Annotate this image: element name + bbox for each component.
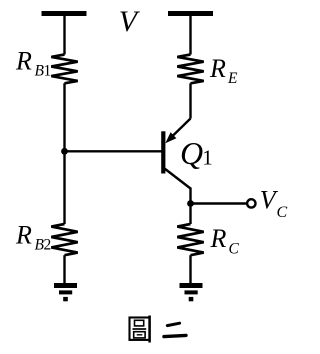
caption character 圖 (Figure) — [130, 316, 150, 343]
svg-text:C: C — [277, 204, 288, 221]
resistor RC — [177, 224, 203, 255]
power rail bar (left, V supply) — [42, 11, 87, 16]
wire: RB1 down through base node to RB2 — [63, 83, 65, 224]
transistor Q1 base bar — [161, 131, 165, 173]
svg-text:C: C — [229, 241, 240, 258]
wire: right rail down to RE — [189, 16, 191, 55]
resistor RE — [177, 55, 203, 84]
svg-text:Q: Q — [180, 135, 203, 171]
wire: node to output terminal — [191, 202, 247, 204]
svg-text:R: R — [15, 47, 32, 76]
node: collector output junction dot — [187, 200, 194, 207]
terminal VC (open circle) — [247, 199, 255, 207]
wire: left rail down to RB1 — [63, 16, 65, 55]
wire: RC down to ground — [189, 255, 191, 284]
svg-text:E: E — [227, 70, 238, 87]
transistor Q1 collector (diagonal) — [165, 169, 191, 189]
svg-text:R: R — [209, 54, 226, 83]
ground (right, below RC) — [180, 286, 203, 302]
svg-text:2: 2 — [44, 237, 52, 254]
svg-text:R: R — [15, 221, 32, 250]
node: base junction dot — [61, 148, 68, 155]
transistor Q1 emitter (diagonal with arrow into base) — [165, 119, 190, 144]
ground (left, below RB2) — [54, 286, 77, 302]
resistor RB2 — [51, 224, 77, 255]
svg-text:R: R — [210, 224, 227, 253]
svg-text:1: 1 — [44, 63, 52, 80]
wire: RB2 down to ground — [63, 255, 65, 284]
wire: RE down to emitter bend — [189, 83, 191, 118]
resistor RB1 — [51, 55, 77, 84]
power rail bar (right, V supply) — [168, 11, 213, 16]
wire: base wire to transistor — [65, 150, 162, 152]
wire: collector down to output node — [189, 188, 191, 225]
svg-text:1: 1 — [202, 145, 213, 169]
caption character 二 (two) — [164, 323, 186, 336]
